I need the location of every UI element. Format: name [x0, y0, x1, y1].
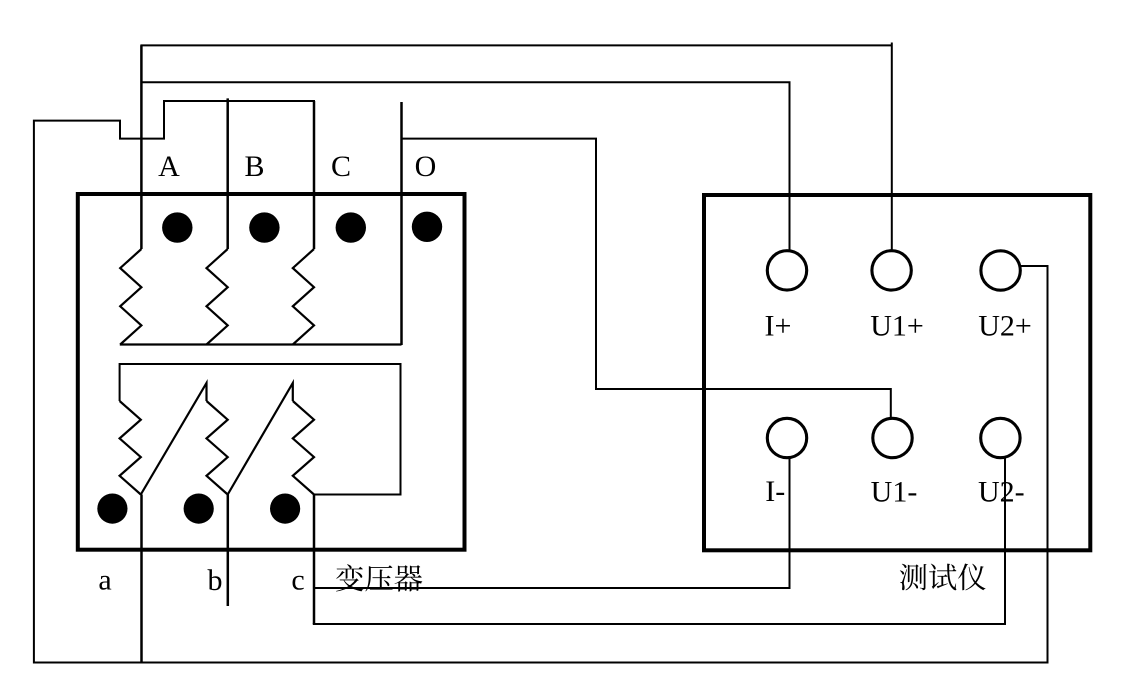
wire neutral to U1- [402, 139, 891, 419]
svg-text:I+: I+ [765, 309, 792, 342]
svg-text:U1+: U1+ [870, 309, 924, 342]
winding a zigzag [120, 401, 141, 495]
wire O neutral stub vertical [400, 102, 403, 345]
winding c zigzag [293, 401, 314, 495]
svg-text:c: c [291, 564, 304, 597]
transformer box [78, 194, 465, 550]
wire a terminal down to bottom line [140, 495, 143, 663]
winding B zigzag [207, 249, 228, 345]
svg-text:O: O [415, 150, 437, 183]
binding post U1+ [872, 251, 911, 290]
svg-text:b: b [208, 564, 223, 597]
binding post I- [767, 418, 806, 457]
svg-text:B: B [244, 150, 264, 183]
secondary winding frame outline [120, 364, 401, 495]
wire diagonal b to c [228, 383, 293, 495]
winding C zigzag [293, 249, 314, 345]
terminal dot c [270, 494, 300, 524]
terminal dot O [412, 212, 442, 242]
wire diagonal a to b [141, 383, 207, 495]
terminal dot a [97, 494, 127, 524]
label transformer (Chinese) [336, 564, 422, 591]
terminal dot b [184, 494, 214, 524]
svg-text:U1-: U1- [871, 476, 918, 509]
terminal dot C [336, 212, 366, 242]
wire branch A to I+ [141, 82, 789, 251]
wire B terminal stub [226, 98, 229, 249]
binding post U2- [981, 418, 1020, 457]
binding post I+ [767, 251, 806, 290]
winding A zigzag [120, 249, 141, 345]
svg-text:I-: I- [765, 475, 785, 508]
wire I- down and left to c [314, 457, 790, 588]
svg-text:U2-: U2- [978, 476, 1025, 509]
wire neutral bus of primary windings [120, 343, 402, 345]
wire c down, right and up to U2- [313, 495, 316, 625]
wire b terminal stub down [227, 495, 230, 607]
binding post U2+ [981, 251, 1020, 290]
binding post U1- [873, 418, 912, 457]
wire net A: terminal A up, across top, down to U1+ [140, 45, 143, 249]
tester box [704, 195, 1090, 550]
terminal dot A [162, 212, 192, 242]
svg-text:U2+: U2+ [978, 309, 1032, 342]
terminal dot B [249, 212, 279, 242]
label tester (Chinese) [900, 563, 986, 590]
winding b zigzag [207, 401, 228, 495]
svg-text:a: a [98, 564, 111, 597]
svg-text:A: A [158, 150, 180, 183]
wire net C: up, left, down the left side, along bottom, up to U2+ [313, 101, 316, 249]
svg-text:C: C [331, 150, 351, 183]
